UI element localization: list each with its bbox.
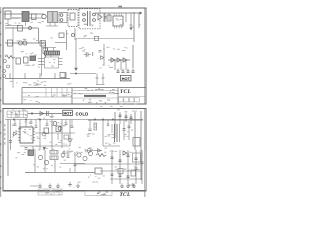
svg-text:HOT: HOT bbox=[63, 111, 72, 116]
svg-text:TCL: TCL bbox=[119, 192, 130, 198]
svg-text:TCL: TCL bbox=[120, 89, 132, 95]
svg-text:HOT: HOT bbox=[122, 76, 131, 81]
svg-text:COLD: COLD bbox=[76, 111, 89, 116]
